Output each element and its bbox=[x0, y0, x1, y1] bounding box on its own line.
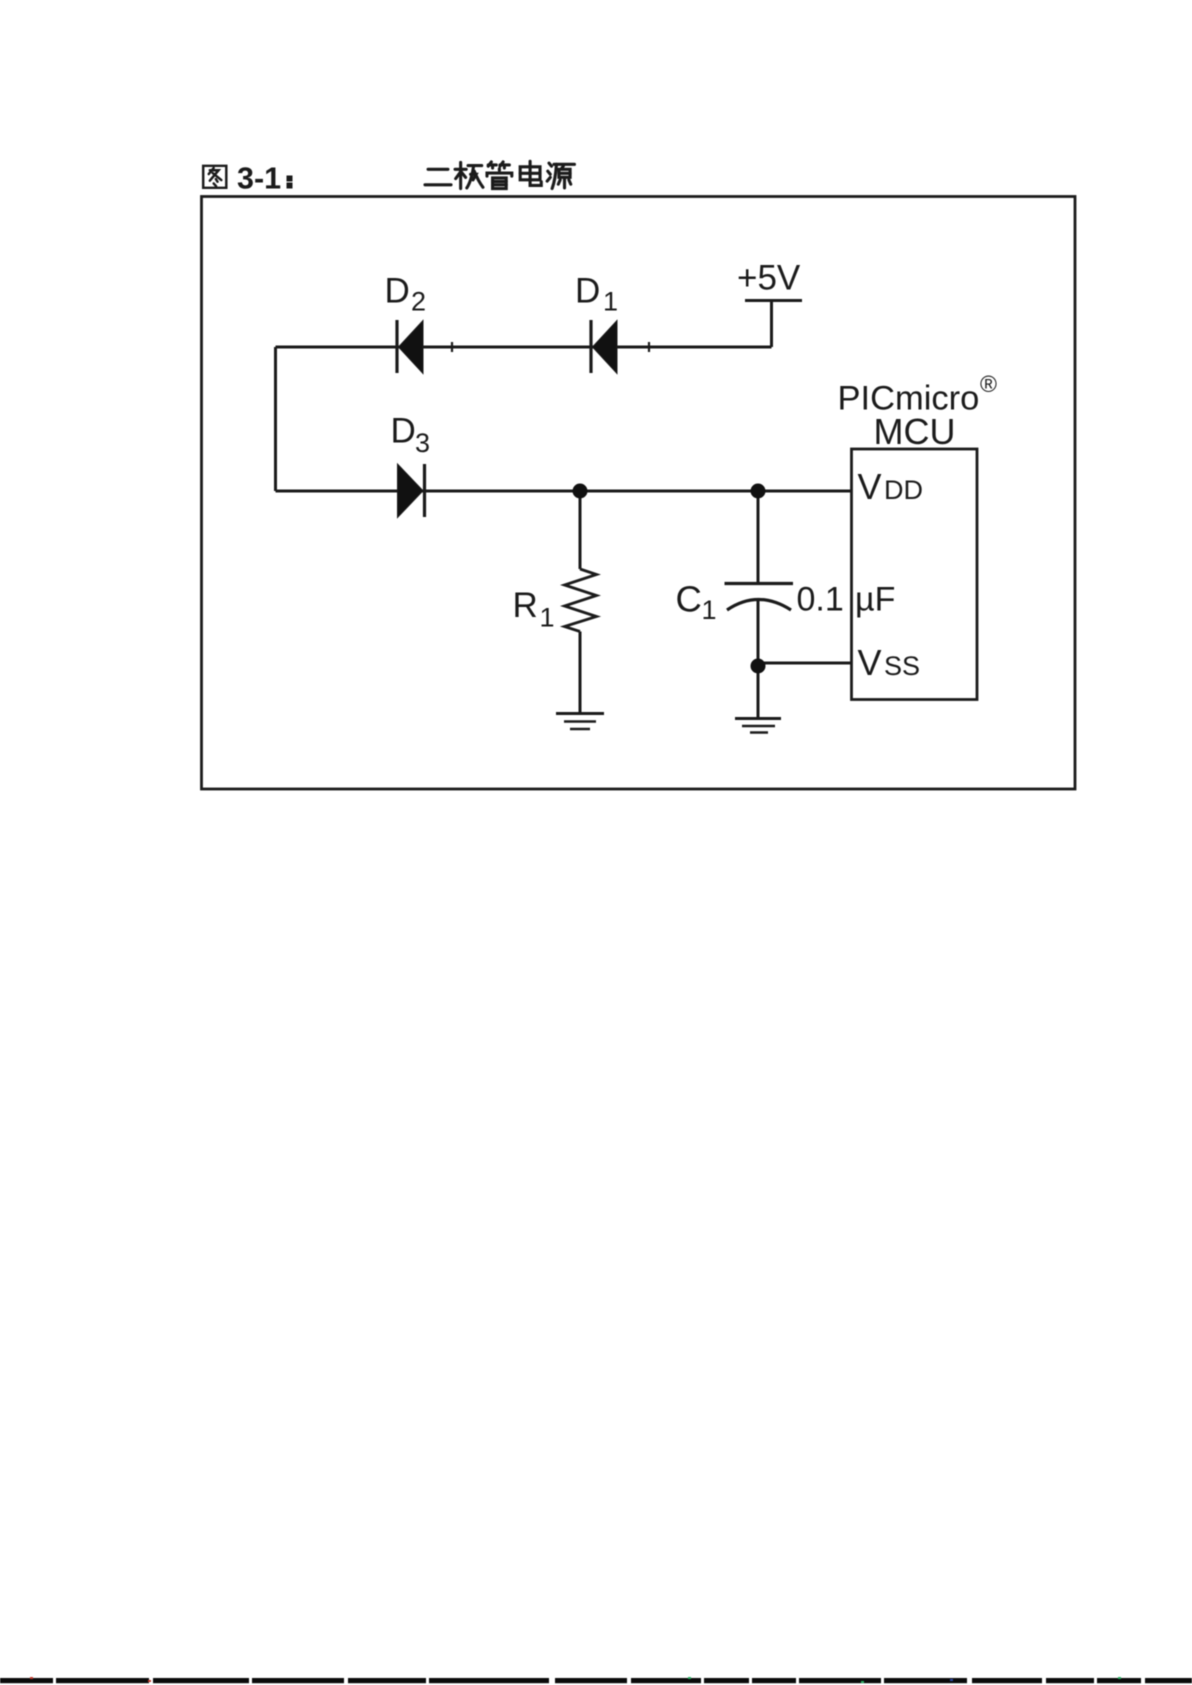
svg-text:1: 1 bbox=[702, 595, 717, 625]
svg-text:1: 1 bbox=[540, 603, 555, 633]
svg-text:D: D bbox=[385, 272, 410, 311]
svg-text:1: 1 bbox=[603, 287, 618, 317]
svg-text:SS: SS bbox=[884, 651, 920, 681]
svg-text:3: 3 bbox=[415, 428, 430, 458]
svg-text:0.1: 0.1 bbox=[797, 581, 844, 619]
svg-text:D: D bbox=[575, 272, 600, 311]
svg-text:R: R bbox=[513, 586, 538, 625]
svg-text:V: V bbox=[858, 642, 882, 683]
svg-text:3-1: 3-1 bbox=[237, 162, 281, 196]
svg-text:2: 2 bbox=[411, 287, 426, 317]
svg-text:®: ® bbox=[980, 371, 997, 397]
svg-text:µF: µF bbox=[855, 581, 895, 619]
svg-text:+5V: +5V bbox=[737, 259, 801, 298]
svg-text:D: D bbox=[391, 412, 416, 451]
svg-text:C: C bbox=[676, 579, 702, 620]
svg-text:V: V bbox=[858, 466, 882, 507]
svg-text:MCU: MCU bbox=[874, 411, 956, 452]
svg-text:DD: DD bbox=[884, 475, 923, 505]
